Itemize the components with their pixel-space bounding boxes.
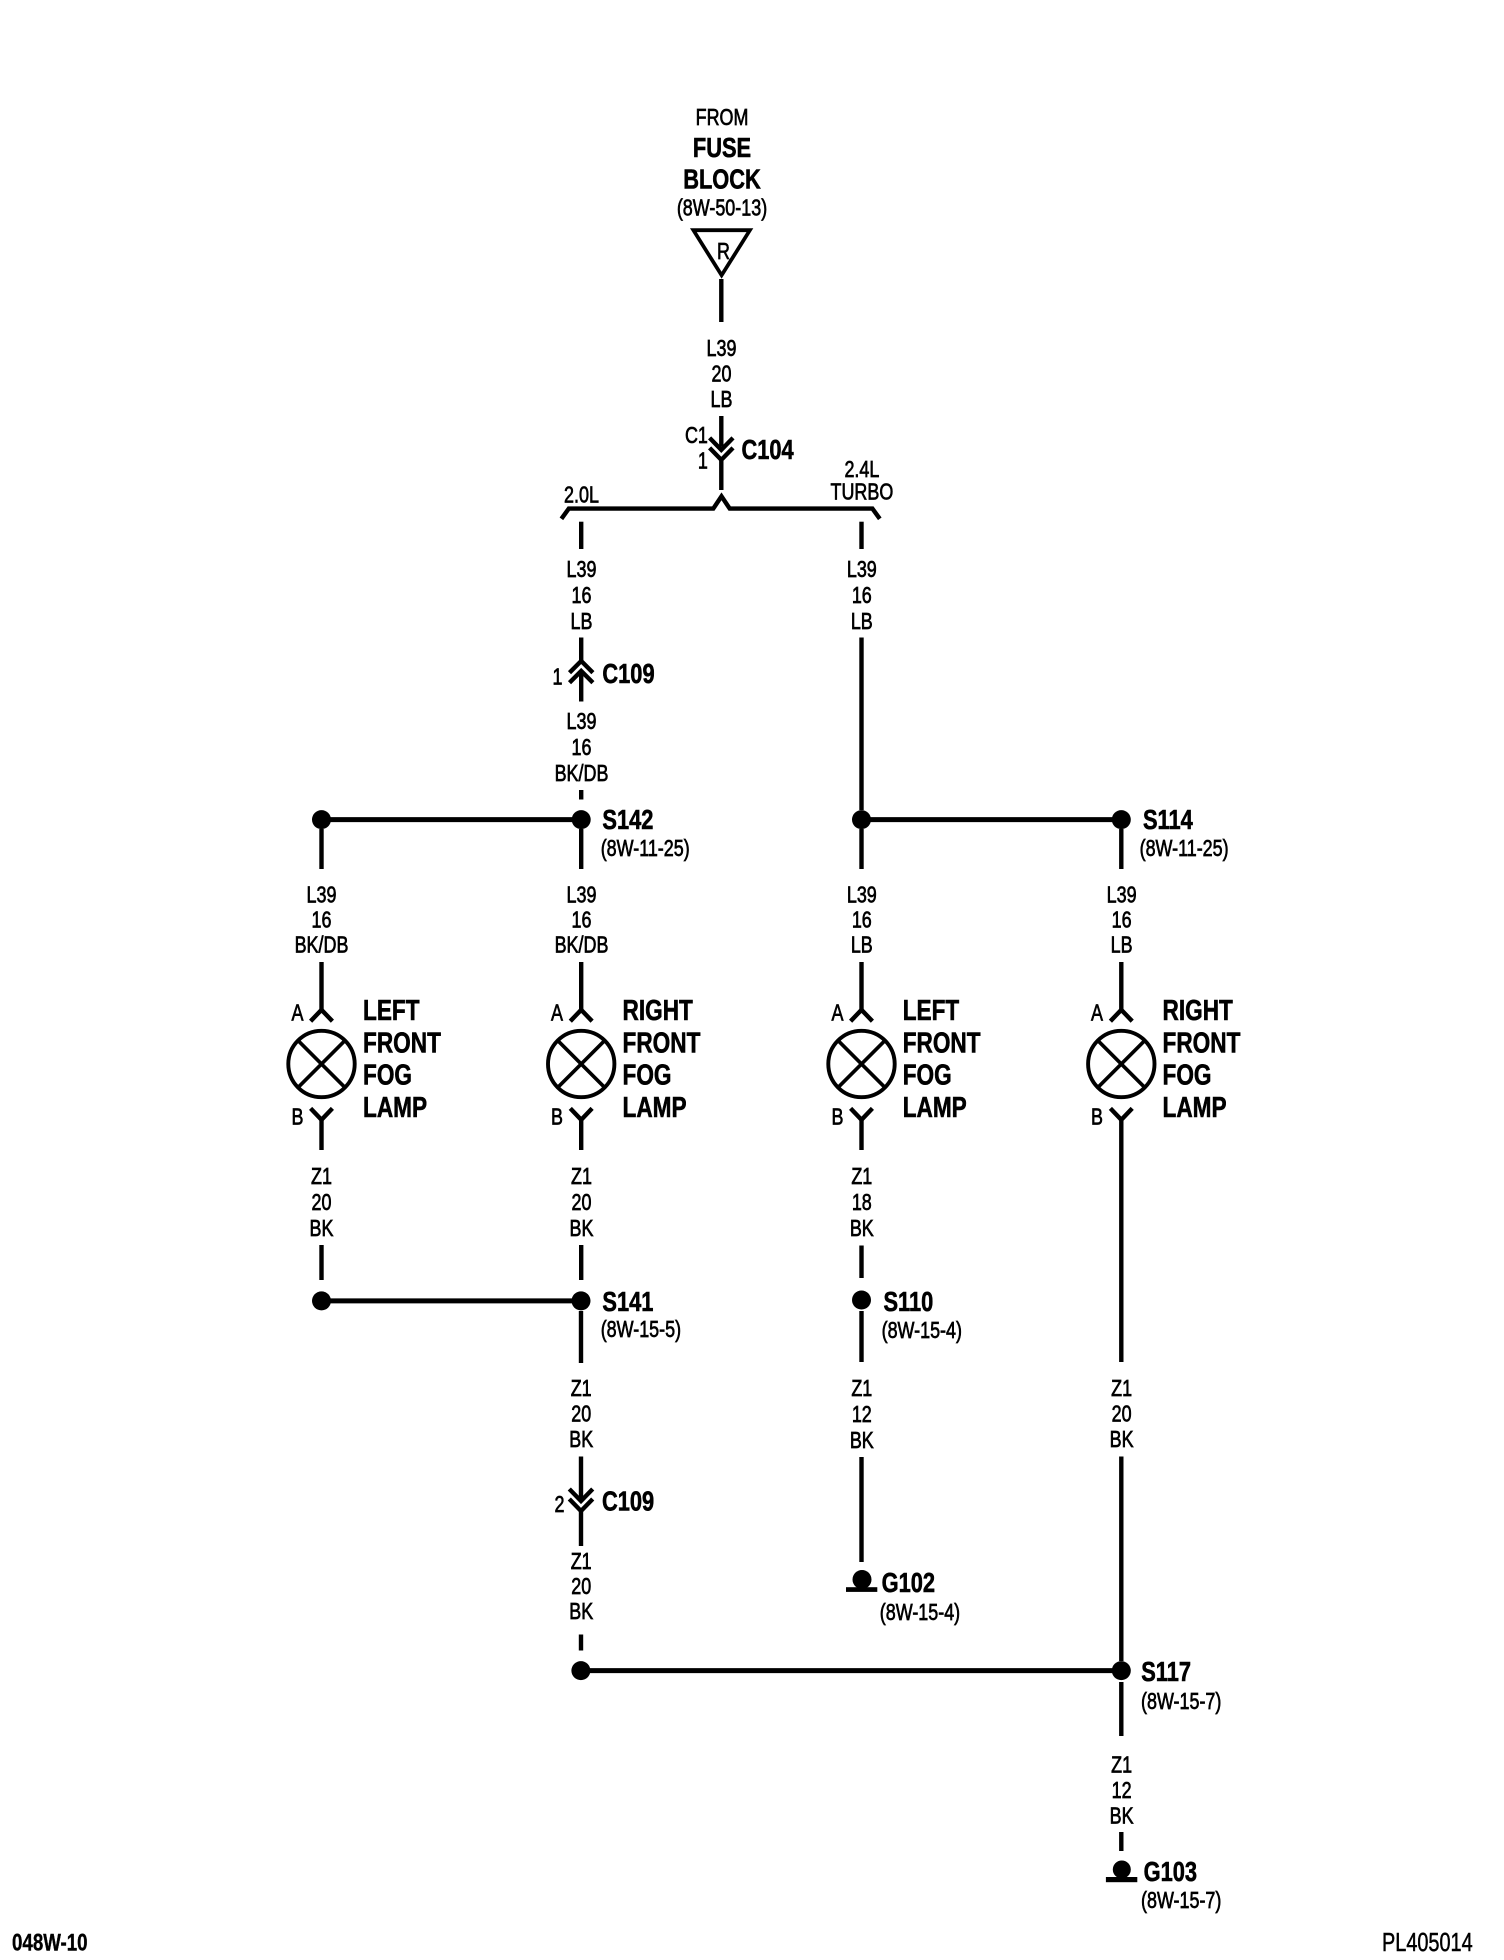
svg-text:1: 1 (698, 448, 708, 474)
svg-text:FRONT: FRONT (623, 1026, 701, 1059)
svg-text:G103: G103 (1144, 1856, 1197, 1887)
svg-text:Z1: Z1 (851, 1376, 872, 1402)
svg-text:(8W-50-13): (8W-50-13) (677, 195, 767, 221)
svg-text:20: 20 (1112, 1401, 1132, 1427)
svg-text:A: A (551, 1000, 563, 1026)
svg-text:BK/DB: BK/DB (295, 932, 349, 958)
svg-text:20: 20 (312, 1190, 332, 1216)
svg-text:Z1: Z1 (311, 1164, 332, 1190)
svg-text:LB: LB (1111, 932, 1133, 958)
svg-text:C109: C109 (602, 658, 654, 689)
svg-text:B: B (551, 1104, 563, 1130)
svg-text:(8W-15-4): (8W-15-4) (880, 1600, 960, 1626)
svg-text:(8W-15-7): (8W-15-7) (1141, 1689, 1221, 1715)
svg-text:B: B (1091, 1104, 1103, 1130)
svg-text:PL405014: PL405014 (1382, 1928, 1473, 1957)
svg-text:LB: LB (711, 387, 733, 413)
svg-text:Z1: Z1 (1111, 1752, 1132, 1778)
svg-text:LEFT: LEFT (903, 993, 960, 1026)
svg-text:FUSE: FUSE (693, 132, 751, 163)
svg-text:16: 16 (852, 583, 872, 609)
svg-text:FOG: FOG (623, 1058, 672, 1091)
svg-text:L39: L39 (567, 557, 597, 583)
svg-text:BK: BK (1110, 1427, 1134, 1453)
svg-text:LB: LB (851, 609, 873, 635)
svg-text:Z1: Z1 (1111, 1376, 1132, 1402)
svg-text:16: 16 (852, 907, 872, 933)
svg-text:1: 1 (553, 664, 563, 690)
svg-text:RIGHT: RIGHT (623, 993, 693, 1026)
svg-text:Z1: Z1 (571, 1376, 592, 1402)
svg-text:G102: G102 (882, 1567, 935, 1598)
svg-text:FOG: FOG (903, 1058, 952, 1091)
svg-text:TURBO: TURBO (831, 479, 894, 505)
svg-text:S114: S114 (1143, 804, 1193, 835)
svg-text:L39: L39 (847, 882, 877, 908)
svg-text:L39: L39 (567, 709, 597, 735)
svg-text:L39: L39 (307, 882, 337, 908)
svg-text:BK: BK (850, 1216, 874, 1242)
svg-text:C1: C1 (685, 423, 708, 449)
svg-text:S117: S117 (1141, 1656, 1191, 1687)
svg-text:20: 20 (571, 1574, 591, 1600)
svg-text:L39: L39 (567, 882, 597, 908)
svg-text:BK: BK (310, 1216, 334, 1242)
svg-text:BK/DB: BK/DB (555, 932, 609, 958)
svg-text:20: 20 (572, 1190, 592, 1216)
svg-text:BK: BK (850, 1428, 874, 1454)
svg-text:Z1: Z1 (571, 1549, 592, 1575)
svg-text:(8W-15-7): (8W-15-7) (1141, 1888, 1221, 1914)
svg-text:16: 16 (1112, 907, 1132, 933)
svg-text:L39: L39 (1107, 882, 1137, 908)
svg-text:FROM: FROM (696, 105, 749, 131)
svg-text:(8W-15-5): (8W-15-5) (601, 1317, 681, 1343)
svg-text:LAMP: LAMP (623, 1090, 687, 1123)
svg-text:(8W-11-25): (8W-11-25) (1140, 836, 1229, 862)
svg-text:LAMP: LAMP (363, 1090, 427, 1123)
svg-text:FRONT: FRONT (903, 1026, 981, 1059)
svg-text:16: 16 (572, 583, 592, 609)
svg-text:048W-10: 048W-10 (12, 1929, 88, 1956)
svg-text:C104: C104 (742, 434, 794, 465)
svg-text:FRONT: FRONT (363, 1026, 441, 1059)
svg-text:BK: BK (570, 1216, 594, 1242)
svg-text:BLOCK: BLOCK (683, 164, 761, 195)
svg-text:LB: LB (851, 932, 873, 958)
svg-text:RIGHT: RIGHT (1163, 993, 1233, 1026)
svg-text:LAMP: LAMP (1163, 1090, 1227, 1123)
svg-text:BK: BK (569, 1427, 593, 1453)
svg-text:12: 12 (852, 1402, 872, 1428)
svg-text:L39: L39 (847, 557, 877, 583)
svg-text:LEFT: LEFT (363, 993, 420, 1026)
svg-text:C109: C109 (602, 1486, 654, 1517)
svg-text:(8W-11-25): (8W-11-25) (601, 836, 690, 862)
svg-text:FOG: FOG (363, 1058, 412, 1091)
svg-text:20: 20 (712, 361, 732, 387)
svg-text:S110: S110 (884, 1286, 934, 1317)
svg-text:16: 16 (572, 735, 592, 761)
svg-text:Z1: Z1 (571, 1164, 592, 1190)
svg-text:A: A (292, 1000, 304, 1026)
svg-text:B: B (832, 1104, 844, 1130)
svg-text:18: 18 (852, 1190, 872, 1216)
svg-text:B: B (292, 1104, 304, 1130)
svg-text:BK/DB: BK/DB (555, 761, 609, 787)
svg-text:16: 16 (312, 907, 332, 933)
svg-text:BK: BK (1110, 1803, 1134, 1829)
svg-text:2.0L: 2.0L (564, 482, 599, 508)
svg-text:(8W-15-4): (8W-15-4) (882, 1318, 962, 1344)
svg-text:R: R (717, 239, 730, 265)
svg-text:12: 12 (1112, 1778, 1132, 1804)
svg-text:LB: LB (571, 609, 593, 635)
svg-text:FRONT: FRONT (1163, 1026, 1241, 1059)
svg-text:S141: S141 (602, 1286, 653, 1317)
svg-text:L39: L39 (707, 336, 737, 362)
svg-text:A: A (1091, 1000, 1103, 1026)
svg-text:16: 16 (572, 907, 592, 933)
svg-text:A: A (832, 1000, 844, 1026)
svg-text:LAMP: LAMP (903, 1090, 967, 1123)
svg-text:S142: S142 (602, 804, 653, 835)
svg-text:BK: BK (569, 1599, 593, 1625)
svg-text:2: 2 (555, 1492, 565, 1518)
svg-text:20: 20 (571, 1401, 591, 1427)
svg-text:FOG: FOG (1163, 1058, 1212, 1091)
svg-text:Z1: Z1 (851, 1164, 872, 1190)
